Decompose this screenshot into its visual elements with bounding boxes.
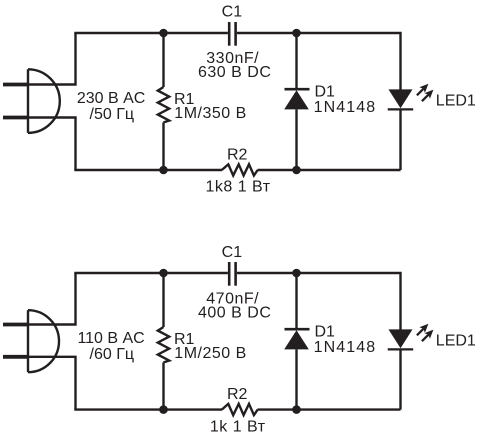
svg-text:C1: C1 [222,244,243,261]
wire from plug top prong to left vertical (top circuit) [28,33,76,85]
svg-text:R2: R2 [227,386,248,403]
svg-text:1N4148: 1N4148 [314,339,377,356]
svg-text:110 В AC: 110 В AC [77,330,144,347]
wire from plug bottom prong down to bottom rail (top circuit) [28,118,76,171]
svg-text:/50 Гц: /50 Гц [90,106,135,123]
svg-text:1k 1 Вт: 1k 1 Вт [210,419,266,436]
junction node R1-bottom (bottom circuit) [159,405,168,414]
wire bottom rail left segment (to R2) (bottom circuit) [74,408,222,410]
plug X1 (AC mains plug, top circuit) [3,69,60,133]
svg-text:1M/350 В: 1M/350 В [174,105,246,122]
wire bottom rail right segment (R2 to LED1) (bottom circuit) [258,408,401,410]
wire bottom rail left segment (to R2) (top circuit) [74,169,222,171]
svg-text:LED1: LED1 [436,333,476,350]
svg-text:230 В AC: 230 В AC [77,90,145,107]
resistor R1 with leads (bottom circuit) [158,273,169,410]
svg-text:400 В DC: 400 В DC [198,305,271,322]
wire top rail left segment (left corner to C1) (bottom circuit) [74,272,228,274]
svg-text:R2: R2 [227,147,248,164]
svg-text:/60 Гц: /60 Гц [90,346,135,363]
LED1 light arrow 1 (top circuit) [414,81,431,98]
svg-text:D1: D1 [315,324,336,341]
diode D1 with leads (bottom circuit) [284,273,309,410]
junction node R1-top (top circuit) [159,29,168,38]
junction node D1-bottom (bottom circuit) [292,405,301,414]
wire from plug top prong to left vertical (bottom circuit) [28,273,76,325]
svg-text:630 В DC: 630 В DC [198,64,271,81]
svg-text:1M/250 В: 1M/250 В [174,345,246,362]
junction node R1-top (bottom circuit) [159,269,168,278]
LED1 light arrow 2 (top circuit) [419,87,436,104]
svg-text:1N4148: 1N4148 [314,99,377,116]
resistor R1 with leads (top circuit) [158,33,169,170]
wire top rail right segment (C1 to LED1 corner) (bottom circuit) [237,273,401,330]
svg-text:D1: D1 [315,84,336,101]
junction node D1-bottom (top circuit) [292,166,301,175]
resistor R2 (top circuit) [222,164,258,175]
LED1 light arrow 1 (bottom circuit) [414,321,431,338]
capacitor C1 plates (bottom circuit) [228,262,237,286]
junction node D1-top (bottom circuit) [292,269,301,278]
wire top rail left segment (left corner to C1) (top circuit) [74,32,228,34]
capacitor C1 plates (top circuit) [228,22,237,46]
resistor R2 (bottom circuit) [222,404,258,415]
diode D1 with leads (top circuit) [284,33,309,170]
junction node R1-bottom (top circuit) [159,166,168,175]
wire from plug bottom prong down to bottom rail (bottom circuit) [28,357,76,410]
LED LED1 with leads (top circuit) [388,89,414,170]
wire bottom rail right segment (R2 to LED1) (top circuit) [258,169,401,171]
LED LED1 with leads (bottom circuit) [388,329,414,409]
svg-text:C1: C1 [222,4,243,21]
LED1 light arrow 2 (bottom circuit) [419,327,436,344]
junction node D1-top (top circuit) [292,29,301,38]
svg-text:1k8 1 Вт: 1k8 1 Вт [205,178,270,195]
svg-text:LED1: LED1 [436,93,476,110]
plug X2 (AC mains plug, bottom circuit) [3,310,59,372]
wire top rail right segment (C1 to LED1 corner) (top circuit) [237,33,401,90]
